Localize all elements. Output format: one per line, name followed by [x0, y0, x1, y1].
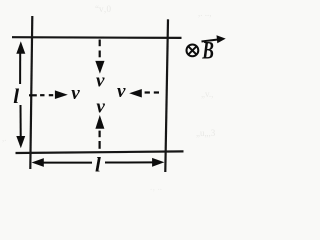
svg-text:v: v	[96, 71, 105, 92]
loop left side wire	[30, 16, 32, 169]
right velocity arrow v (dashed, pointing left)	[129, 89, 159, 98]
svg-text:l: l	[13, 84, 19, 108]
loop bottom side wire	[16, 151, 184, 153]
bottom dimension arrow l (horizontal double arrow)	[32, 158, 165, 167]
top velocity arrow v (dashed, pointing down)	[95, 40, 104, 74]
faint bleed-through marks	[2, 4, 216, 192]
svg-text:„v.,: „v.,	[201, 89, 213, 99]
loop top side wire	[12, 36, 182, 39]
svg-text:v: v	[71, 83, 80, 104]
loop right side wire	[165, 19, 168, 172]
svg-text:l: l	[95, 153, 101, 177]
left velocity arrow v (dashed, pointing right)	[29, 90, 68, 99]
svg-text:“v‚0: “v‚0	[95, 4, 111, 14]
svg-text:v: v	[96, 97, 105, 118]
bottom velocity arrow v (dashed, pointing up)	[95, 115, 104, 149]
vector arrow over B	[202, 35, 226, 43]
svg-text:,. ..,: ,. ..,	[198, 8, 212, 18]
svg-text:„u„,3: „u„,3	[196, 128, 216, 138]
svg-text:.‚ ..: .‚ ..	[150, 182, 162, 192]
svg-text:,.: ,.	[2, 133, 7, 143]
svg-text:v: v	[117, 81, 126, 102]
paper background	[0, 0, 237, 195]
magnetic field into page symbol (circle with X)	[187, 45, 199, 57]
left dimension arrow l (vertical double arrow)	[16, 41, 25, 148]
